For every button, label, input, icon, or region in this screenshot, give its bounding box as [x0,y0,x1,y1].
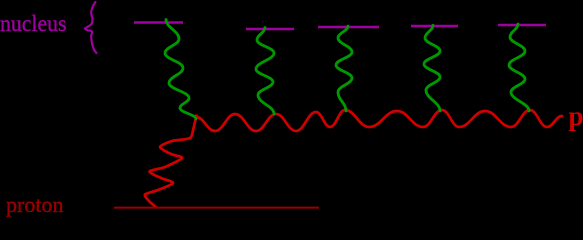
svg-text:proton: proton [6,192,63,217]
nucleus dashed line segment 3 [318,26,379,29]
nucleus dashed line segment 2 [246,28,294,31]
photon line 1 (nucleus to proton) [165,20,196,120]
proton wavy line p [196,110,562,131]
photon line 3 (nucleus to proton) [336,26,352,111]
nucleus dashed line segment 4 [411,25,458,28]
nucleus dashed line segment 1 [134,21,183,24]
svg-text:p: p [569,101,583,131]
nucleus brace [85,2,97,53]
svg-text:nucleus: nucleus [0,11,67,36]
photon line 5 (nucleus to proton) [509,24,529,111]
proton line [114,207,319,209]
nucleus dashed line segment 5 [498,24,546,27]
proton leg wavy line [145,116,197,208]
photon line 4 (nucleus to proton) [424,25,440,111]
photon line 2 (nucleus to proton) [256,28,274,115]
